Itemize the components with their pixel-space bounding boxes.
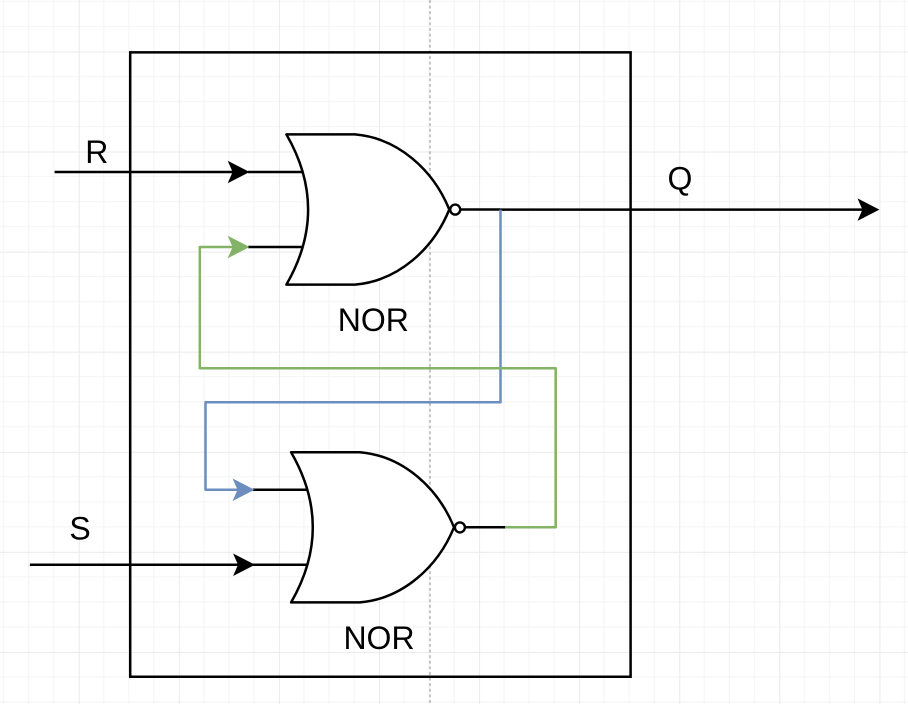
arrowhead S (233, 554, 255, 577)
svg-text:NOR: NOR (343, 620, 414, 656)
U1 output pin stub (460, 208, 501, 211)
svg-text:S: S (69, 511, 90, 547)
U2 gate body (291, 452, 454, 602)
U2 output pin stub (465, 526, 506, 529)
wire Q output (501, 208, 863, 211)
U1 gate body (286, 134, 449, 284)
svg-text:R: R (85, 134, 108, 170)
outer box (130, 52, 630, 676)
wire S input (30, 564, 238, 567)
svg-text:Q: Q (668, 161, 693, 197)
wire feedback green (lower NOR output to upper NOR input) (200, 247, 556, 527)
arrowhead R (228, 161, 250, 184)
svg-text:NOR: NOR (338, 302, 409, 338)
arrowhead green (228, 236, 250, 259)
wire R input (55, 171, 233, 174)
arrowhead Q (858, 198, 880, 221)
U2 inversion bubble (455, 522, 465, 532)
arrowhead blue (233, 479, 255, 502)
U1 inversion bubble (450, 205, 460, 215)
NOR gate U1 (top) (248, 134, 501, 284)
wire feedback blue (Q to lower NOR input) (206, 210, 501, 490)
U2 input pin stubs (253, 490, 317, 565)
page divider (dashed) (429, 0, 431, 704)
U1 input pin stubs (248, 172, 312, 247)
NOR gate U2 (bottom) (253, 452, 506, 602)
